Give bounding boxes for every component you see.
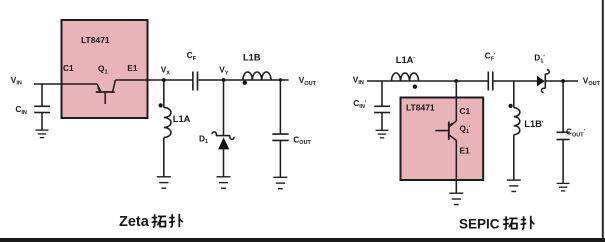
- svg-text:VOUT: VOUT: [583, 75, 601, 87]
- svg-text:CIN: CIN: [15, 104, 27, 116]
- svg-text:CIN′: CIN′: [353, 98, 367, 110]
- svg-text:LT8471: LT8471: [81, 35, 110, 45]
- svg-text:VX: VX: [161, 65, 171, 77]
- svg-text:C1: C1: [63, 63, 74, 73]
- svg-text:D1′: D1′: [534, 53, 545, 65]
- svg-text:VY: VY: [219, 65, 229, 77]
- svg-text:L1A: L1A: [173, 114, 191, 124]
- svg-text:Zeta: Zeta: [119, 214, 150, 230]
- svg-text:CF: CF: [187, 50, 197, 62]
- svg-text:SEPIC: SEPIC: [459, 217, 500, 232]
- svg-text:CF′: CF′: [485, 51, 496, 63]
- svg-text:VIN: VIN: [11, 75, 22, 87]
- svg-text:VOUT: VOUT: [299, 75, 317, 87]
- svg-text:VIN: VIN: [353, 74, 364, 86]
- svg-text:E1: E1: [127, 63, 138, 73]
- svg-text:L1B′: L1B′: [524, 119, 544, 129]
- svg-text:L1A′: L1A′: [396, 55, 416, 65]
- svg-text:COUT: COUT: [293, 134, 311, 146]
- svg-text:D1: D1: [199, 133, 208, 145]
- svg-text:E1: E1: [460, 146, 471, 156]
- svg-text:COUT′: COUT′: [566, 127, 586, 139]
- svg-text:LT8471: LT8471: [406, 103, 435, 113]
- svg-text:C1: C1: [460, 106, 471, 116]
- svg-text:L1B: L1B: [243, 53, 261, 63]
